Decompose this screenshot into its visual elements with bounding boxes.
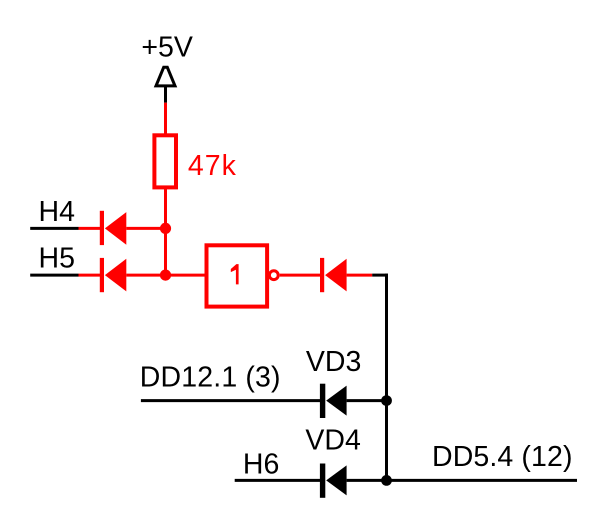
logic gate U1 body	[207, 245, 268, 306]
wire red vertical from resistor to H5 node	[164, 187, 167, 275]
diode VD5 (output) cathode bar	[320, 258, 324, 292]
wire red H4 diode to node	[126, 227, 165, 230]
+5V power symbol	[156, 67, 175, 86]
resistor R1 47k body	[154, 135, 176, 187]
diode VD3 cathode bar	[320, 384, 325, 418]
diode VD2 (H5) triangle	[105, 259, 126, 292]
svg-text:VD4: VD4	[305, 424, 361, 456]
wire red from output diode	[347, 274, 373, 277]
diode VD5 (output) triangle	[325, 259, 347, 292]
wire red H5 diode to gate input	[126, 274, 206, 277]
logic gate U1 inversion bubble	[269, 271, 278, 280]
node junction dot at H4 row	[160, 223, 171, 234]
wire H5 black segment	[30, 274, 78, 277]
node junction dot VD3/bus	[381, 395, 392, 406]
svg-text:DD5.4 (12): DD5.4 (12)	[432, 441, 573, 473]
wire H5 red segment to diode	[79, 274, 101, 277]
wire black H6 to VD4	[235, 479, 320, 482]
diode VD4 triangle	[326, 465, 346, 495]
svg-text:VD3: VD3	[306, 346, 361, 378]
diode VD3 triangle	[326, 386, 346, 416]
svg-text:H4: H4	[39, 196, 76, 228]
svg-text:H6: H6	[243, 448, 279, 480]
diode VD4 cathode bar	[320, 464, 325, 498]
wire black from power symbol	[164, 86, 167, 103]
wire black VD4 to bus	[347, 479, 387, 482]
diode VD1 (H4) cathode bar	[100, 211, 104, 245]
wire black vertical bus	[385, 274, 388, 481]
wire black DD12.1 to VD3	[141, 399, 320, 402]
wire black VD3 to bus	[347, 399, 387, 402]
wire H4 red segment to diode	[79, 227, 101, 230]
diode VD1 (H4) triangle	[105, 212, 126, 245]
wire black bus to DD5.4	[387, 479, 578, 482]
wire H4 black segment	[30, 227, 78, 230]
wire red to resistor top	[164, 103, 167, 134]
wire red gate output to diode	[280, 274, 321, 277]
node junction dot VD4/bus	[381, 475, 392, 486]
svg-text:+5V: +5V	[141, 31, 193, 63]
node junction dot at H5 row	[160, 270, 171, 281]
svg-text:H5: H5	[39, 242, 75, 274]
svg-text:DD12.1 (3): DD12.1 (3)	[140, 361, 281, 393]
svg-text:47k: 47k	[188, 150, 237, 182]
logic gate U1 label 1	[231, 264, 239, 284]
wire black corner horizontal	[372, 274, 388, 277]
diode VD2 (H5) cathode bar	[100, 258, 104, 292]
